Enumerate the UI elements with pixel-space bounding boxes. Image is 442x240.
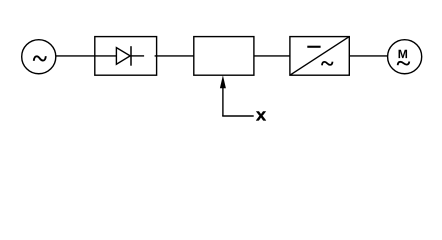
- control arrow horizontal wire: [222, 115, 254, 117]
- inverter box U1: [290, 37, 349, 76]
- wire: [155, 55, 194, 57]
- inverter tilde: [322, 62, 333, 66]
- AC source G1: [22, 40, 56, 74]
- control arrow vertical wire: [222, 88, 224, 117]
- motor tilde: [398, 62, 410, 66]
- motor label M: [399, 50, 408, 58]
- inverter diagonal: [290, 37, 349, 76]
- AC source tilde: [34, 56, 46, 61]
- diode cathode wire: [131, 55, 144, 57]
- diode V1: [116, 48, 130, 65]
- control arrow head: [220, 75, 226, 88]
- wire: [56, 55, 95, 57]
- diode cathode bar: [130, 46, 132, 65]
- control block: [194, 37, 254, 76]
- control input label x: [256, 111, 266, 120]
- inverter DC bar: [307, 46, 320, 48]
- rectifier box: [95, 37, 157, 76]
- diode anode wire: [95, 55, 117, 57]
- motor M1: [388, 40, 422, 74]
- wire: [254, 55, 290, 57]
- wire: [349, 55, 388, 57]
